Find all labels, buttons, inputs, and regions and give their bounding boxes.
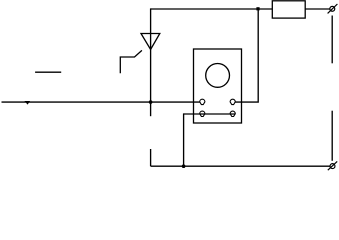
wire bottom bus horizontal — [151, 165, 330, 167]
wire bottom pin row horizontal through pins 3 and 4 — [184, 113, 236, 115]
junction on bottom bus — [182, 164, 186, 168]
wire bottom bus left riser — [150, 149, 152, 166]
wire below terminal X1 — [331, 16, 333, 64]
relay pin 4 (bottom right) — [230, 111, 235, 116]
relay pin 1 (top left) — [200, 99, 205, 104]
wire top horizontal from thyristor anode to terminal X1 — [151, 8, 330, 10]
relay pin 2 (top right) — [230, 99, 235, 104]
terminal X2 slash — [328, 161, 337, 170]
terminal X2 circle (bottom right) — [330, 164, 335, 169]
relay K1 coil circle — [206, 64, 230, 88]
wire main input horizontal — [2, 101, 200, 103]
terminal X1 circle (top right) — [330, 6, 335, 11]
relay K1 body — [194, 49, 242, 123]
terminal X1 slash — [328, 4, 338, 13]
capacitor plate stub (isolated short line) — [35, 71, 61, 73]
wire relay pin2 to top junction — [235, 9, 258, 102]
junction at thyristor cathode and input wire — [149, 100, 153, 104]
wire thyristor vertical branch — [150, 8, 152, 116]
wire above terminal X2 — [331, 111, 333, 161]
thyristor V1 gate lead — [120, 50, 142, 73]
arrowhead on input wire — [25, 101, 31, 105]
junction on top wire — [256, 7, 259, 10]
thyristor V1 triangle — [141, 34, 160, 50]
resistor R1 — [272, 1, 305, 18]
wire left return vertical — [183, 113, 185, 166]
relay pin 3 (bottom left) — [200, 111, 205, 116]
